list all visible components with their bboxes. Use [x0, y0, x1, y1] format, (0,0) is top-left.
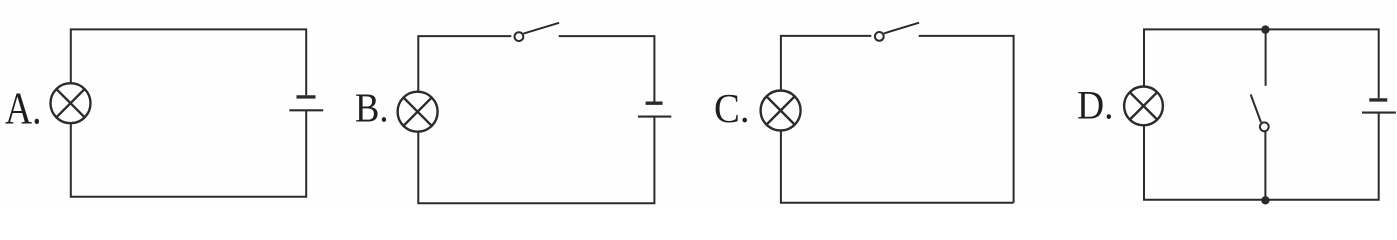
wire C bottom — [781, 131, 1014, 203]
wire D middle upper — [1265, 29, 1267, 85]
switch D — [1251, 95, 1269, 132]
wire B top-right — [559, 36, 655, 101]
wire B top-left — [418, 36, 511, 92]
svg-text:D.: D. — [1077, 83, 1114, 128]
wire D middle lower — [1264, 131, 1266, 200]
svg-text:A.: A. — [5, 83, 42, 134]
wire B bottom — [418, 117, 654, 204]
battery B — [638, 103, 671, 116]
switch B — [515, 23, 560, 41]
node D bottom junction — [1261, 196, 1269, 204]
svg-text:C.: C. — [714, 85, 750, 131]
lamp D — [1124, 87, 1163, 126]
battery A — [289, 97, 323, 110]
wire A top — [71, 29, 306, 95]
switch C — [875, 23, 919, 41]
node D top junction — [1261, 25, 1269, 33]
wire D top — [1144, 29, 1379, 98]
wire C top-right — [919, 36, 1014, 203]
svg-text:B.: B. — [355, 85, 389, 131]
lamp B — [398, 92, 438, 132]
battery D — [1362, 100, 1396, 113]
wire C top-left — [781, 36, 871, 91]
wire D bottom — [1144, 113, 1379, 200]
wire A bottom — [71, 110, 306, 196]
lamp C — [761, 91, 801, 131]
lamp A — [51, 83, 91, 123]
